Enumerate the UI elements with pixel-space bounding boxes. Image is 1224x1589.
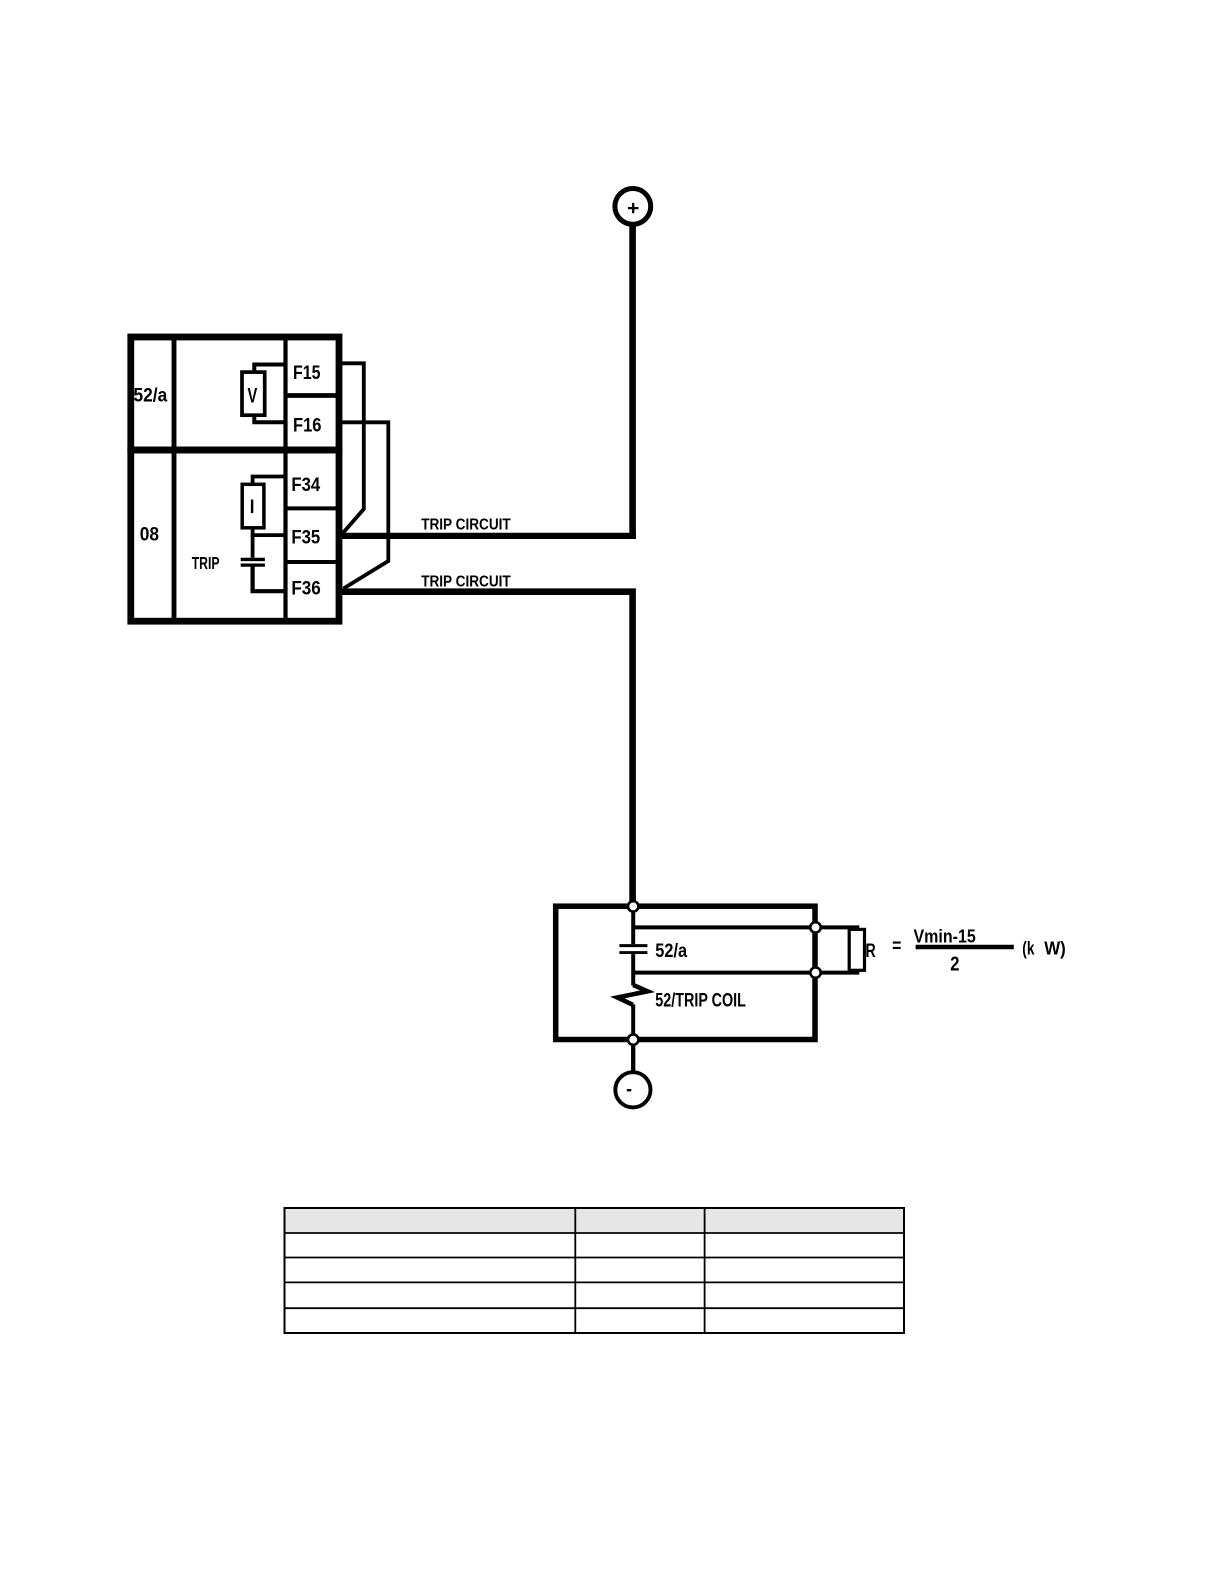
negative terminal - — [615, 1072, 650, 1107]
current element I box — [242, 484, 264, 528]
inner divider left column — [172, 340, 177, 618]
svg-text:52/a: 52/a — [655, 941, 687, 962]
voltage element V box — [242, 372, 265, 415]
svg-text:F15: F15 — [293, 363, 321, 384]
svg-text:F36: F36 — [291, 579, 320, 600]
svg-text:TRIP: TRIP — [192, 553, 220, 573]
wire F16 external — [339, 422, 388, 588]
trip circuit line 2 + wire down to coil box — [336, 592, 633, 906]
node right top — [810, 922, 820, 932]
node top — [628, 901, 638, 911]
wire I top to F34 — [253, 477, 285, 485]
wire F15 external — [339, 363, 364, 533]
svg-text:08: 08 — [140, 523, 159, 545]
svg-text:TRIP CIRCUIT: TRIP CIRCUIT — [421, 573, 511, 590]
node bottom — [628, 1034, 638, 1044]
table — [285, 1208, 905, 1333]
inner line 1 to resistor top — [633, 927, 857, 931]
trip coil zigzag — [617, 985, 647, 1005]
vertical to capacitor 52/a — [631, 907, 635, 945]
svg-text:F34: F34 — [291, 475, 320, 496]
positive terminal + — [615, 189, 651, 225]
svg-text:52/TRIP COIL: 52/TRIP COIL — [655, 991, 746, 1012]
svg-text:F16: F16 — [293, 416, 322, 437]
svg-text:Vmin-15: Vmin-15 — [914, 926, 976, 947]
table grid — [285, 1208, 905, 1333]
resistor R — [849, 929, 864, 970]
vertical zigzag to bottom node — [631, 1004, 635, 1039]
capacitor 52/a plates — [619, 944, 647, 947]
svg-text:=: = — [892, 936, 901, 957]
divider F15/F16 — [286, 393, 340, 398]
relay box upper (52/a section) — [131, 337, 339, 450]
trip coil box — [556, 906, 815, 1039]
inner line 2 to resistor bottom — [633, 969, 857, 973]
wire capacitor bottom to F36 — [253, 567, 285, 592]
svg-text:R: R — [866, 940, 876, 962]
divider F35/F36 — [286, 560, 340, 564]
wire from + down to trip circuit 1 — [629, 227, 636, 539]
wire bottom node to minus terminal — [631, 1046, 635, 1071]
relay box lower (08 TRIP section) — [131, 450, 339, 621]
wire I bottom to F35 junction — [253, 528, 285, 536]
svg-text:TRIP CIRCUIT: TRIP CIRCUIT — [421, 517, 511, 534]
svg-text:V: V — [248, 385, 258, 408]
svg-text:W): W) — [1044, 939, 1066, 959]
wire V bottom to F16 — [254, 415, 287, 423]
table header fill — [286, 1209, 904, 1232]
svg-text:52/a: 52/a — [134, 385, 168, 406]
divider F34/F35 — [286, 506, 340, 510]
wire junction down to capacitor — [251, 535, 255, 558]
fraction bar — [916, 945, 1014, 949]
wire V top to F15 — [254, 365, 287, 373]
svg-text:2: 2 — [950, 953, 959, 975]
svg-text:F35: F35 — [291, 528, 320, 549]
inner divider terminal column — [283, 340, 287, 618]
node right bottom — [810, 967, 820, 977]
vertical capacitor to zigzag — [631, 954, 635, 985]
capacitor plates — [241, 558, 265, 561]
svg-text:(k: (k — [1022, 938, 1035, 958]
trip circuit line 1 — [336, 533, 636, 539]
